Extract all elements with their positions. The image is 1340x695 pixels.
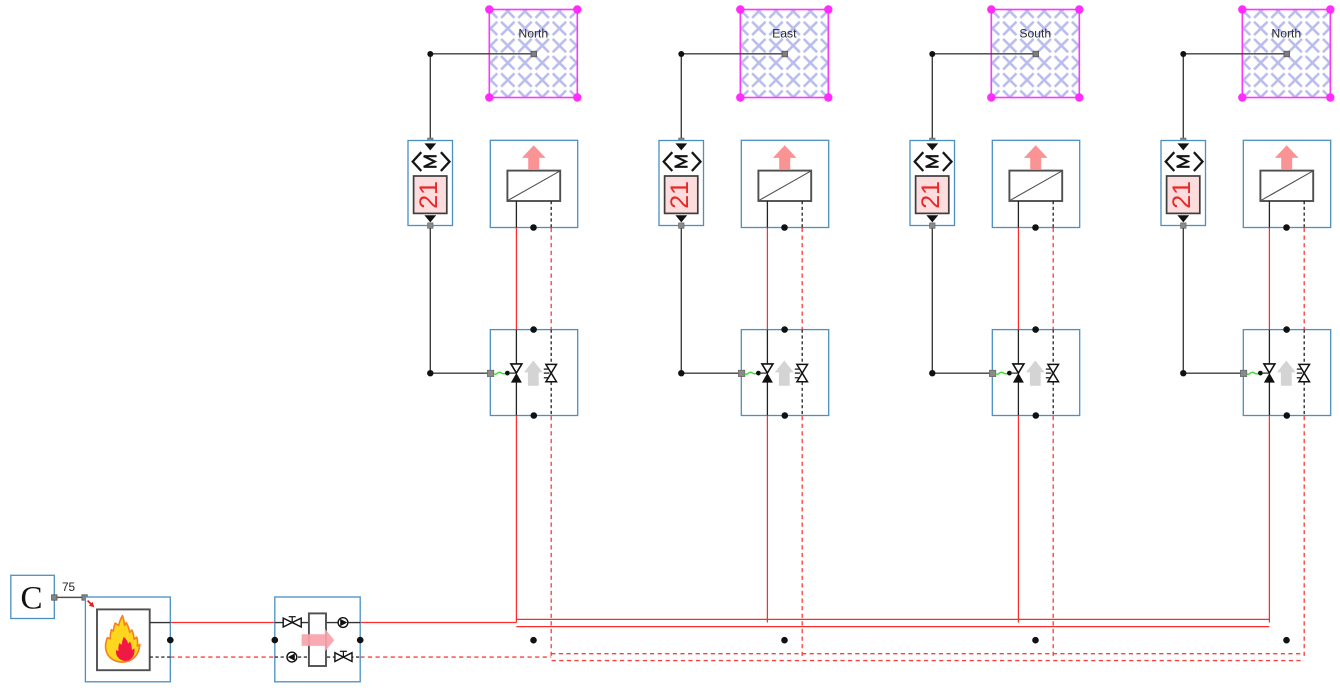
wire: zone 2 to temperature setpoint (678, 51, 787, 144)
setpoint block T1 (21 degC) (408, 141, 453, 229)
node: manifold junction 1 (530, 637, 537, 644)
wire: return to boiler/pump (dashed) (170, 656, 551, 658)
wire: zone 3 to temperature setpoint (929, 51, 1038, 144)
wire: setpoint 2 to valve 2 (678, 228, 740, 376)
constant block C (boiler setpoint) (11, 575, 55, 618)
wire: setpoint 1 to valve 1 (427, 228, 489, 376)
svg-text:C: C (20, 581, 42, 617)
wire: return manifold lower run (dashed) (552, 660, 1302, 662)
radiator rad4 (1243, 140, 1330, 231)
wire: setpoint 4 to valve 4 (1180, 228, 1242, 376)
pipe risers zone 4 (1269, 228, 1304, 657)
setpoint block T3 (21 degC) (910, 141, 955, 229)
wire: zone 1 to temperature setpoint (427, 51, 536, 144)
setpoint block T2 (21 degC) (659, 141, 704, 229)
boiler Boi (85, 597, 173, 682)
zone South (3) (987, 5, 1083, 101)
radiator rad1 (490, 140, 577, 231)
pipe risers zone 1 (516, 228, 551, 657)
wire: supply manifold lower run (516, 626, 1269, 628)
svg-text:South: South (1019, 27, 1051, 41)
zone North (4) (1238, 5, 1334, 101)
wire: setpoint 3 to valve 3 (929, 228, 991, 376)
zone East (2) (736, 5, 832, 101)
pipe risers zone 2 (767, 228, 802, 657)
svg-text:North: North (518, 27, 548, 41)
pump unit pumRad (272, 597, 364, 682)
pipe risers zone 3 (1018, 228, 1053, 657)
wire: zone 4 to temperature setpoint (1180, 51, 1289, 144)
svg-text:East: East (772, 27, 797, 41)
svg-text:North: North (1271, 27, 1301, 41)
wire: setpoint 75 to boiler (52, 580, 88, 600)
wire: return manifold upper run (dashed) (551, 653, 1304, 655)
wire: supply manifold upper run (516, 618, 1269, 620)
node: manifold junction 2 (781, 637, 788, 644)
valve unit val1 (487, 326, 577, 419)
setpoint block T4 (21 degC) (1161, 141, 1206, 229)
wire: supply from boiler/pump to riser 1 (170, 622, 516, 624)
valve unit val4 (1240, 326, 1330, 419)
radiator rad3 (992, 140, 1079, 231)
valve unit val2 (738, 326, 828, 419)
node: manifold junction 3 (1032, 637, 1039, 644)
node: manifold junction 4 (1283, 637, 1290, 644)
radiator rad2 (741, 140, 828, 231)
svg-text:75: 75 (62, 580, 76, 594)
zone North (1) (485, 5, 581, 101)
valve unit val3 (989, 326, 1079, 419)
